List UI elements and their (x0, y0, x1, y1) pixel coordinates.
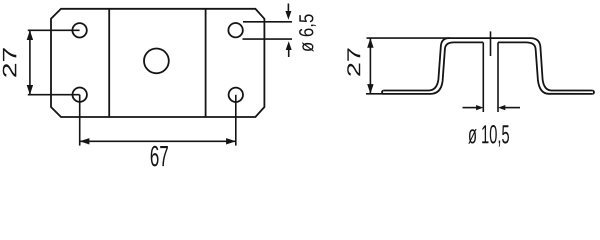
bend line left (108, 9, 110, 117)
sheet end cap right (592, 91, 594, 94)
dim 67 extension line right (235, 95, 237, 146)
dia 10.5 arrowhead right (498, 105, 505, 110)
dia 10.5 arrow shaft left (463, 107, 477, 109)
hole bottom-left (73, 88, 87, 102)
hole top-left (72, 23, 86, 37)
hole top-right (228, 23, 242, 37)
hole bottom-right (229, 88, 243, 102)
dia 6.5 leader line bottom (243, 38, 293, 40)
dim 67 extension line left (79, 95, 81, 146)
dim 27 right arrow down (367, 84, 373, 94)
bend line right (205, 9, 207, 117)
dim 27 right: dimension line (369, 38, 371, 94)
dim 67 arrow left (80, 138, 90, 144)
hole edge line right (side view) (497, 42, 499, 112)
sheet end cap left (382, 91, 384, 94)
dim 27 right: extension line top (367, 37, 451, 39)
dim 27 right: extension line bottom (366, 93, 384, 95)
label 27 (left view) (3, 48, 17, 77)
dia 10.5 arrowhead left (476, 105, 483, 110)
dia 6.5 arrow shaft down (287, 4, 289, 13)
dim 27 arrow down (27, 85, 33, 95)
dia 6.5 arrowhead up (286, 41, 292, 50)
dim 27 extension line bottom (28, 94, 80, 96)
center hole (144, 49, 169, 74)
label 27 (side view) (347, 49, 360, 76)
dia 6.5 arrowhead down (285, 11, 291, 20)
side view: sheet upper surface (384, 38, 593, 90)
dim 27 extension line top (28, 29, 80, 31)
label 67 (151, 146, 168, 167)
dia 6.5 leader line top (243, 21, 292, 23)
side view: sheet lower surface (384, 42, 593, 94)
dim 67 dimension line (80, 140, 236, 142)
dia 6.5 arrow shaft up (288, 49, 290, 57)
dim 27 right arrow up (367, 38, 373, 48)
hole centerline (side view) (490, 31, 492, 56)
dia 10.5 arrow shaft right (505, 107, 520, 109)
label ø 6,5 (299, 14, 316, 51)
hole edge line left (side view) (482, 42, 484, 112)
plate outline (top view, chamfered corners) (51, 9, 264, 117)
dim 27 arrow up (27, 30, 33, 40)
dim 67 arrow right (226, 138, 236, 144)
dim 27 dimension line (29, 30, 31, 94)
label ø 10,5 (468, 125, 509, 147)
